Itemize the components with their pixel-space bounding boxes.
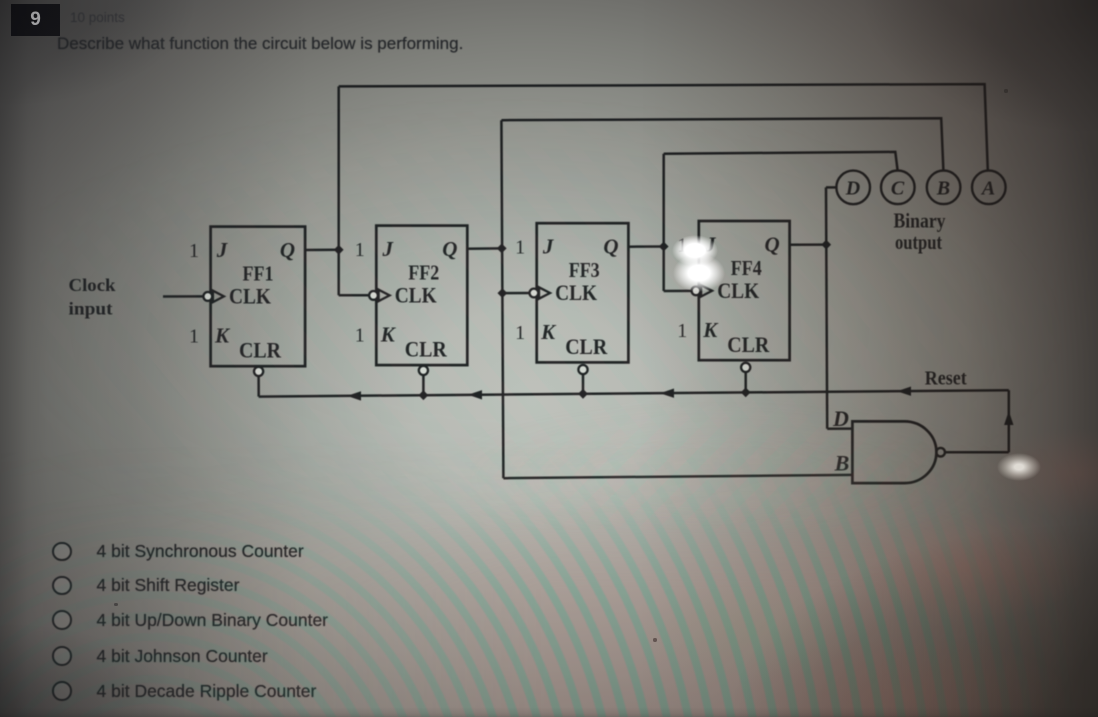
NAND gate U1: [852, 421, 944, 483]
junction: FF3 Q node C: [659, 242, 669, 252]
label: NAND input B: [834, 451, 850, 476]
FF4 CLR bubble: [741, 363, 750, 372]
label: NAND input D: [832, 406, 849, 431]
wire: FF1 Q output: [305, 249, 339, 252]
wire: FF2 Q riser (output B feed, down to NAND B leg): [501, 120, 503, 478]
FF3 CLK bubble: [530, 289, 539, 298]
wire: FF2 Q output: [467, 247, 501, 250]
flip-flop FF4: [677, 221, 789, 372]
U1 inversion bubble: [936, 448, 945, 457]
wire: FF1 CLR drop: [257, 377, 260, 397]
label: Binary output: [894, 209, 946, 255]
header: [11, 4, 60, 36]
flip-flop FF3: [515, 223, 628, 374]
junction: FF2 Q node B: [497, 244, 507, 254]
arrowhead: CLR bus left arrow 2: [468, 390, 482, 399]
wire: clock input to FF1 CLK: [163, 295, 204, 298]
FF4 CLK bubble: [692, 286, 701, 295]
wire: FF1 Q riser (output A feed, down to FF2 CLK): [337, 86, 340, 295]
flip-flop FF2: [355, 226, 468, 375]
output circle D: [836, 171, 870, 205]
FF2 CLK bubble: [369, 291, 378, 300]
wire: output C top run to circle C: [664, 152, 898, 171]
output circle B: [927, 171, 961, 205]
FF2 body: [376, 226, 467, 366]
wire: NAND output run: [945, 451, 1009, 454]
shading overlays: [40, 90, 1080, 530]
arrowhead: CLR bus left arrow 3: [660, 389, 674, 398]
FF3 CLR bubble: [578, 365, 587, 374]
FF2 CLR bubble: [419, 366, 428, 375]
output circle A: [972, 171, 1006, 205]
junction: FF2 riser at FF3 CLK: [498, 288, 508, 298]
flip-flop FF1: [189, 227, 305, 376]
wire: D riser (circle D down to NAND D input): [826, 187, 827, 428]
junction: CLR bus at FF2: [419, 390, 429, 400]
U1 AND-shape body: [852, 421, 936, 483]
wire: circle D stub: [826, 186, 836, 189]
wire: reset riser: [1008, 390, 1011, 452]
wire: FF2 CLR drop: [422, 376, 425, 396]
answer options: [52, 541, 304, 563]
FF2 CLK edge-trigger chevron: [379, 290, 390, 301]
FF4 body: [699, 221, 790, 360]
wire: NAND D input run: [827, 427, 852, 430]
output circle C: [881, 171, 915, 205]
junction: CLR bus at FF3: [578, 389, 588, 399]
arrowhead: reset run left arrow: [897, 387, 911, 396]
wire: CLR bus: [259, 390, 1009, 396]
FF3 CLK edge-trigger chevron: [539, 287, 550, 298]
FF1 CLK edge-trigger chevron: [213, 291, 224, 302]
wire: FF2 CLK stub: [339, 294, 371, 297]
FF4 CLK edge-trigger chevron: [701, 285, 712, 296]
wire: NAND B input run: [503, 475, 852, 478]
wire: FF3 CLR drop: [582, 375, 585, 394]
wire: FF3 Q output: [628, 245, 663, 248]
FF1 CLR bubble: [254, 367, 263, 376]
junction: CLR bus at FF4: [741, 388, 751, 398]
FF1 body: [211, 227, 306, 367]
wire: FF4 CLK stub: [664, 290, 694, 293]
FF1 CLK bubble: [203, 292, 212, 301]
wire: FF3 CLK stub: [502, 292, 531, 295]
wire: FF4 CLR drop: [744, 373, 747, 393]
wire: output A top run to circle A: [339, 84, 988, 171]
junction: FF4 Q node D: [821, 240, 831, 250]
label: Clock input: [69, 275, 116, 319]
wire: output B top run to circle B: [501, 118, 943, 170]
wire: FF3 Q riser (output C feed, down to FF4 CLK): [662, 154, 665, 291]
arrowhead: CLR bus left arrow 1: [347, 391, 361, 400]
wire: FF4 Q output: [790, 243, 826, 246]
arrowhead: reset riser up arrow: [1004, 411, 1013, 425]
FF3 body: [537, 223, 629, 362]
label: Reset: [925, 368, 967, 390]
junction: FF1 Q node A: [334, 245, 344, 255]
